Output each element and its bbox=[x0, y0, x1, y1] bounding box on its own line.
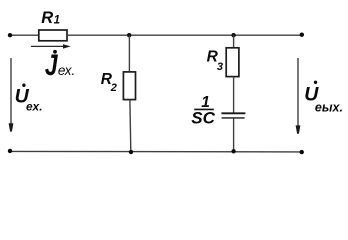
svg-text:ех.: ех. bbox=[26, 99, 43, 113]
resistor R2 bbox=[123, 72, 135, 100]
node junction top R2 bbox=[127, 33, 131, 37]
wire R2 branch upper bbox=[128, 35, 130, 72]
node input top terminal bbox=[8, 33, 12, 37]
node input bottom terminal bbox=[8, 149, 12, 153]
wire R2 branch lower bbox=[129, 100, 132, 152]
node junction bottom R3 bbox=[231, 149, 235, 153]
wire top-middle segment bbox=[67, 34, 302, 36]
label U вх. bbox=[15, 84, 43, 114]
node output top terminal bbox=[300, 33, 304, 37]
label R1 bbox=[41, 9, 60, 27]
svg-text:ех.: ех. bbox=[58, 63, 75, 78]
current arrow Jвх bbox=[31, 44, 71, 48]
node junction bottom R2 bbox=[129, 150, 133, 154]
wire bottom bbox=[10, 150, 302, 153]
wire R3 branch upper bbox=[233, 35, 235, 48]
wire R3 to capacitor bbox=[233, 77, 235, 114]
label 1/SC bbox=[191, 94, 215, 128]
label J вх. bbox=[45, 48, 75, 82]
voltage arrow Uвх bbox=[9, 58, 14, 132]
svg-text:2: 2 bbox=[110, 82, 117, 94]
resistor R1 bbox=[39, 30, 67, 41]
node junction top R3 bbox=[231, 33, 235, 37]
capacitor 1/SC bottom plate bbox=[222, 117, 245, 119]
capacitor 1/SC top plate bbox=[221, 112, 245, 114]
label R3 bbox=[207, 49, 223, 73]
wire capacitor to bottom bbox=[233, 118, 235, 152]
resistor R3 bbox=[226, 48, 239, 77]
voltage arrow Uвых bbox=[296, 58, 301, 134]
svg-text:J: J bbox=[45, 48, 59, 82]
svg-text:3: 3 bbox=[217, 61, 223, 73]
node output bottom terminal bbox=[300, 150, 304, 154]
label R2 bbox=[101, 71, 117, 94]
svg-text:R: R bbox=[41, 9, 53, 27]
svg-text:SC: SC bbox=[191, 109, 215, 128]
svg-text:1: 1 bbox=[54, 14, 60, 26]
label U вых. bbox=[304, 81, 343, 115]
svg-text:еых.: еых. bbox=[315, 101, 343, 115]
wire top-left segment bbox=[10, 34, 39, 36]
